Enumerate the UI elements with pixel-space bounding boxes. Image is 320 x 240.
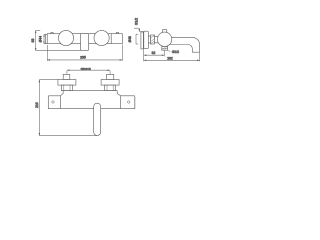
right end block <box>121 96 135 109</box>
svg-text:Ø44: Ø44 <box>39 36 43 42</box>
left end plate <box>45 34 47 43</box>
left block dot <box>52 101 54 103</box>
label G1/2 (hose) with leader <box>168 50 170 53</box>
nut (hatched) <box>151 35 155 44</box>
dim 216 (left vertical) <box>39 80 97 136</box>
wall flange <box>144 31 149 48</box>
right end cap line <box>110 34 112 44</box>
neck <box>154 36 158 43</box>
dim 202 <box>144 53 200 62</box>
right union flange <box>101 80 119 86</box>
svg-text:G1/2: G1/2 <box>172 50 179 54</box>
left end block <box>48 96 60 109</box>
left knob circle <box>58 30 73 45</box>
center outlet <box>81 34 89 51</box>
spout (bottom view) <box>94 103 101 135</box>
left union flange <box>58 80 76 86</box>
valve body circle <box>157 32 171 46</box>
right union stub <box>107 74 114 79</box>
svg-text:216: 216 <box>35 102 39 108</box>
left top bump <box>51 32 53 33</box>
svg-text:202: 202 <box>167 56 173 60</box>
svg-text:G1/2: G1/2 <box>134 18 138 25</box>
top cap <box>162 30 166 33</box>
dim 82 <box>144 48 165 61</box>
svg-text:Ø48: Ø48 <box>128 36 132 42</box>
spout <box>166 37 200 52</box>
dim 83 (left vertical) <box>36 30 81 50</box>
hose connector (hatched) <box>162 47 168 51</box>
right block dot <box>128 101 130 103</box>
svg-text:82: 82 <box>152 51 156 55</box>
left union stub <box>63 74 70 79</box>
right top bump <box>116 32 118 33</box>
dim 150±15 (top) <box>67 70 110 74</box>
svg-text:150±15: 150±15 <box>80 67 91 71</box>
svg-text:83: 83 <box>31 39 35 43</box>
left union nut <box>61 85 72 91</box>
stub <box>148 36 150 43</box>
bar body (bottom view) <box>48 91 135 109</box>
dim 295 (bottom of front view) <box>47 45 122 61</box>
svg-text:295: 295 <box>80 56 86 60</box>
dim Ø44 (bracket at left end) <box>44 34 45 43</box>
right union nut <box>105 85 116 91</box>
right knob circle <box>94 30 109 45</box>
wall plate <box>141 32 144 49</box>
bar body <box>47 34 122 44</box>
